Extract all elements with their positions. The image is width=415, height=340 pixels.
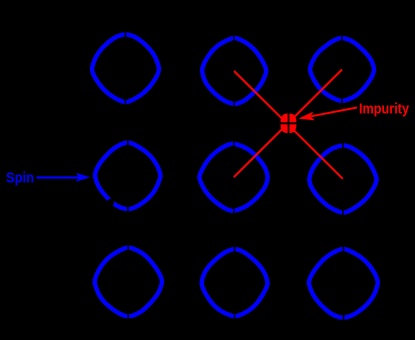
arrow from Spin label to row2 col1 orbital <box>37 173 91 182</box>
spin orbital row1 col1 <box>92 31 159 105</box>
spin orbital row1 col2 <box>202 35 266 107</box>
spin orbital row1 col3 <box>310 35 374 104</box>
impurity 4f orbital (four-lobe clover) <box>278 112 300 136</box>
spin orbital row2 col2 <box>199 140 267 214</box>
spin orbital row3 col2 <box>202 246 268 320</box>
spin orbital row3 col1 <box>95 244 162 319</box>
spin orbital row2 col1 <box>95 139 160 212</box>
hybridization line from row1 col2 orbital to row2 col3 orbital <box>234 71 343 179</box>
arrow from Impurity label to impurity orbital <box>298 108 357 121</box>
hybridization line from row1 col3 orbital to row2 col2 orbital <box>234 70 342 178</box>
svg-text:Spin: Spin <box>6 171 34 187</box>
svg-text:Impurity: Impurity <box>359 101 410 118</box>
spin orbital row2 col3 <box>309 142 376 216</box>
spin orbital row3 col3 <box>309 246 378 321</box>
